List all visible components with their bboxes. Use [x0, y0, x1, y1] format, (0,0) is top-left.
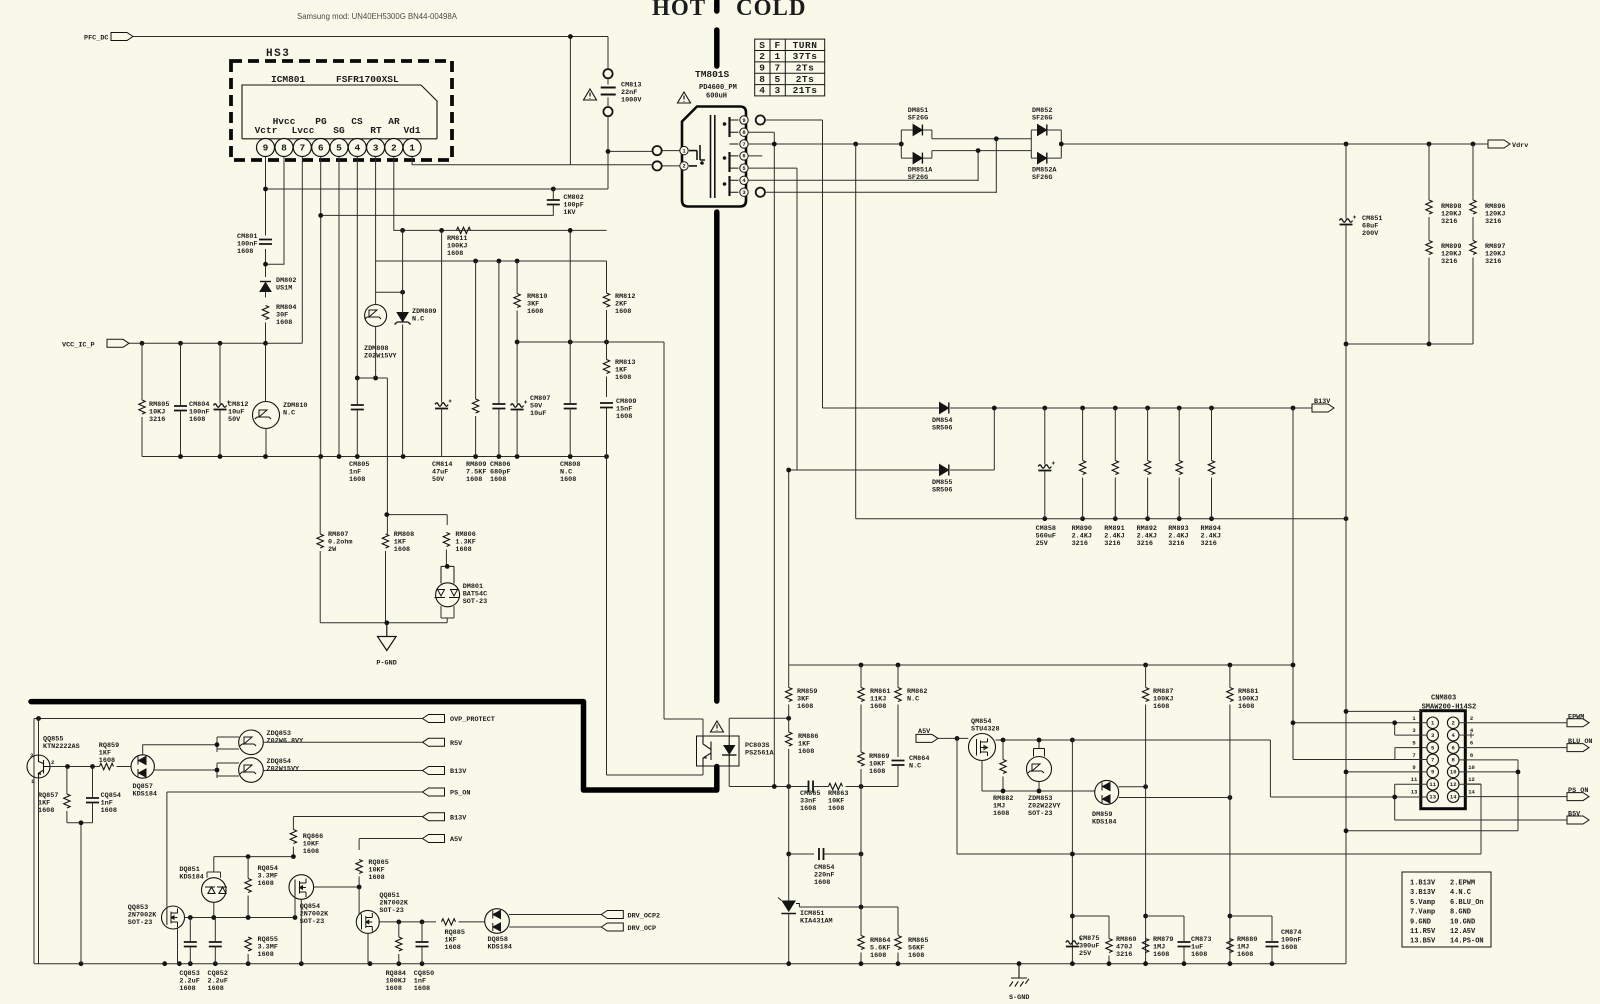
svg-text:A5V: A5V: [450, 836, 463, 844]
svg-text:2: 2: [1470, 715, 1473, 722]
junction: [246, 915, 251, 920]
diode DQ858 KDS184 (dual in circle): [485, 909, 510, 934]
svg-text:8: 8: [281, 143, 287, 154]
wire QQ851 source: [367, 934, 369, 964]
junction: [1228, 914, 1233, 919]
resistor RM860: [1106, 939, 1112, 953]
wire mid rail to optocoupler: [517, 342, 664, 719]
junction: [786, 784, 791, 789]
wire P-GND rail: [320, 622, 447, 624]
diode DM851: [913, 125, 922, 136]
svg-text:3: 3: [373, 143, 379, 154]
resistor RQ854: [245, 879, 251, 893]
wire ZDM853 leads: [1038, 740, 1040, 791]
wire CM802 to pin6 net: [321, 189, 554, 215]
diode DQ857 KDS184 (dual in circle): [131, 755, 154, 778]
capacitor CM813 terminals: [603, 69, 612, 78]
svg-text:P-GND: P-GND: [376, 660, 396, 668]
wire primary leads: [662, 151, 680, 166]
junction: [1070, 852, 1075, 857]
junction: [188, 961, 193, 966]
junction: [786, 468, 791, 473]
resistor RM812: [603, 293, 609, 307]
capacitor CM812 (polarized): [214, 401, 231, 410]
wire QQ854 source: [300, 899, 302, 963]
junction: [1001, 738, 1006, 743]
svg-text:PS_ON: PS_ON: [450, 790, 470, 798]
junction: [215, 768, 220, 773]
wire RM892 leads: [1147, 408, 1149, 519]
svg-text:21Ts: 21Ts: [793, 85, 818, 96]
svg-text:B13V: B13V: [450, 814, 467, 822]
svg-text:1.B13V: 1.B13V: [1410, 880, 1436, 888]
svg-text:4: 4: [759, 85, 765, 96]
wire DQ858 to DRV arrows: [509, 915, 601, 928]
svg-text:DRV_OCP: DRV_OCP: [628, 925, 657, 933]
junction: [1177, 406, 1182, 411]
node DRV_OCP flag: [601, 923, 623, 931]
resistor RM859: [786, 688, 792, 702]
svg-text:5: 5: [774, 74, 780, 85]
junction: [606, 149, 611, 154]
resistor RM805: [139, 400, 145, 414]
wire winding to RM859 rail: [788, 470, 790, 665]
wire ZDM810 leads: [265, 343, 268, 456]
resistor RQ855: [245, 937, 251, 951]
resistor RM880: [1227, 939, 1233, 953]
wire CM813 leads: [608, 78, 653, 189]
junction: [1080, 516, 1085, 521]
junction: [1209, 406, 1214, 411]
wire RQ857 leads: [66, 767, 68, 823]
resistor RM808: [382, 534, 388, 548]
op-amp / optocoupler PC803S: [697, 736, 740, 766]
svg-text:12: 12: [1468, 776, 1475, 783]
wire left border: [33, 719, 35, 964]
wire GND column down to connector area: [1345, 344, 1347, 964]
junction: [896, 961, 901, 966]
wire thick ground bus (bottom-left): [31, 702, 717, 790]
optocoupler diode side: [723, 745, 736, 755]
resistor RQ885 (horizontal): [442, 919, 456, 925]
svg-text:2Ts: 2Ts: [796, 74, 815, 85]
transformer TM801S body: [682, 107, 746, 207]
IC ICM801 pin 5: [330, 139, 348, 157]
connector CNM803 pin 4: [1447, 729, 1459, 741]
junction: [355, 376, 360, 381]
svg-text:EPWM: EPWM: [1568, 713, 1584, 721]
resistor RM809: [472, 399, 478, 413]
IC ICM801 pin 6: [312, 139, 330, 157]
resistor RM806: [443, 533, 449, 547]
wire RM859 leads: [788, 665, 790, 718]
wire RM894 leads: [1211, 408, 1213, 519]
svg-text:14.PS-ON: 14.PS-ON: [1450, 938, 1484, 946]
diode DM859 KDS184 (dual in circle): [1095, 780, 1119, 804]
junction: [1070, 738, 1075, 743]
resistor RM890: [1079, 461, 1085, 475]
resistor RM891: [1112, 461, 1118, 475]
junction: [263, 454, 268, 459]
wire RM886 leads: [788, 718, 790, 786]
svg-text:10: 10: [1468, 764, 1475, 771]
wire CM805 leads: [356, 378, 358, 457]
wire RM862 leads: [897, 665, 899, 757]
wire CM874 leads: [1271, 916, 1273, 964]
wire CQ852 leads: [214, 918, 216, 964]
connector CNM803 pin 12: [1447, 778, 1459, 790]
capacitor CM805: [351, 405, 364, 410]
transformer core lines: [711, 115, 715, 198]
resistor RM865: [895, 936, 901, 950]
junction: [1182, 961, 1187, 966]
junction: [859, 905, 864, 910]
svg-text:CNM803: CNM803: [1431, 695, 1456, 703]
junction: [859, 852, 864, 857]
svg-text:14: 14: [1450, 793, 1457, 800]
svg-text:6: 6: [318, 143, 324, 154]
junction: [473, 454, 478, 459]
wire CM875/RM860 tie: [1072, 915, 1109, 917]
junction: [162, 961, 167, 966]
svg-text:6: 6: [1470, 740, 1473, 747]
wire CM851 leads: [1345, 144, 1347, 344]
junction: [211, 915, 216, 920]
junction: [355, 454, 360, 459]
wire pins11/13 B5V and B5V flag: [1395, 784, 1567, 820]
transformer TM801S pin 2: [680, 162, 688, 170]
wire pin12 stub / pin14 PS_ON: [1459, 784, 1567, 796]
junction: [1392, 795, 1397, 800]
wire opto cathode to RM886 node: [729, 766, 789, 787]
node VCC_IC_P flag: [107, 339, 129, 347]
svg-text:2.EPWM: 2.EPWM: [1450, 880, 1475, 888]
wire CM808 leads: [569, 230, 571, 456]
capacitor CM858 (polarized): [1038, 462, 1055, 471]
junction: [786, 716, 791, 721]
svg-text:600uH: 600uH: [706, 93, 727, 101]
junction: [178, 454, 183, 459]
junction: [1143, 663, 1148, 668]
wire RM806 to DM801: [445, 550, 447, 567]
capacitor CM813: [601, 88, 616, 95]
table legend pin functions: [1402, 872, 1491, 947]
wire PS_ON net: [167, 792, 423, 910]
wire DQ851 top bracket: [207, 857, 221, 878]
junction: [1001, 789, 1006, 794]
connector CNM803 pin 6: [1447, 742, 1459, 754]
resistor RM887: [1142, 688, 1148, 702]
IC ICM801 pin 1: [403, 139, 421, 157]
svg-text:9: 9: [1412, 764, 1415, 771]
transistor ZDQ854 (zener in circle): [239, 758, 264, 783]
wire pin9 down / CM801 column: [265, 157, 267, 278]
svg-text:6.BLU_On: 6.BLU_On: [1450, 899, 1484, 907]
wire down to CM854: [789, 787, 814, 855]
wire RM808 leads: [386, 506, 388, 623]
junction: [551, 187, 556, 192]
junction: [992, 406, 997, 411]
svg-text:14: 14: [1468, 789, 1475, 796]
wire RM805 leads: [141, 343, 143, 456]
wire VCC_IC_P rail: [129, 342, 302, 344]
transformer terminal circles: [653, 146, 662, 155]
svg-text:HS3: HS3: [266, 48, 290, 60]
wire pin6 PG down to ground rail: [320, 157, 322, 457]
junction: [1113, 516, 1118, 521]
wire OVP_PROTECT net: [34, 718, 423, 720]
connector CNM803 pin 3: [1427, 729, 1439, 741]
wire QQ855 collector/emitter: [38, 719, 40, 964]
transistor ZDM853 (zener in circle): [1027, 757, 1052, 782]
IC ICM801 pin 9: [257, 139, 275, 157]
wire CQ850 leads: [421, 922, 423, 964]
junction: [79, 820, 84, 825]
transistor ZDM810 (zener in circle): [253, 402, 280, 429]
junction: [401, 454, 406, 459]
capacitor CQ852: [209, 942, 222, 947]
junction: [497, 454, 502, 459]
junction: [1113, 406, 1118, 411]
junction: [1392, 720, 1397, 725]
wire ZDQ854 to B13V: [263, 770, 422, 772]
junction: [853, 142, 858, 147]
resistor RM879: [1142, 939, 1148, 953]
wire QQ855 base: [50, 766, 100, 768]
junction: [772, 142, 777, 147]
wire RM881 column: [1229, 665, 1231, 964]
wire RQ857/CQ854 to ground: [67, 823, 93, 964]
svg-text:ICM801: ICM801: [271, 74, 306, 85]
junction: [1344, 342, 1349, 347]
svg-text:AR: AR: [388, 116, 400, 127]
junction: [1042, 406, 1047, 411]
IC U-ICM801 dashed enclosure HS3: [231, 61, 452, 160]
wire CM804 leads: [180, 343, 182, 456]
svg-text:B13V: B13V: [1314, 398, 1331, 406]
resistor RM898: [1426, 200, 1432, 214]
svg-text:3: 3: [774, 85, 780, 96]
svg-text:DRV_OCP2: DRV_OCP2: [628, 913, 661, 921]
warning triangle at TM801S: [678, 92, 691, 103]
svg-text:7: 7: [742, 141, 745, 148]
table transformer turns: [755, 39, 825, 96]
junction: [1270, 961, 1275, 966]
svg-text:HOT: HOT: [652, 0, 706, 20]
wire CM858 leads: [1044, 408, 1046, 519]
junction: [299, 961, 304, 966]
resistor RM886: [786, 732, 792, 746]
IC ICM801 pin 3: [367, 139, 385, 157]
wire A5V to RQ865: [359, 839, 422, 851]
wire secondary top rail (B5V): [789, 664, 1293, 666]
junction: [246, 961, 251, 966]
wire CM806 leads: [498, 261, 500, 457]
svg-text:1: 1: [774, 51, 780, 62]
diode DM802: [260, 282, 271, 292]
wire RM807 leads: [319, 457, 321, 623]
svg-text:F: F: [774, 40, 780, 51]
resistor RM863 (horizontal): [829, 783, 843, 789]
svg-text:8.GND: 8.GND: [1450, 909, 1471, 917]
junction: [263, 341, 268, 346]
connector CNM803 body: [1421, 711, 1466, 809]
svg-text:SG: SG: [333, 125, 345, 136]
wire CS node to RM806: [387, 515, 447, 525]
junction: [1143, 961, 1148, 966]
svg-text:PS_ON: PS_ON: [1568, 787, 1588, 795]
wire RM890 leads: [1082, 408, 1084, 519]
transistor QQ853 2N7002K (MOSFET): [162, 906, 185, 929]
wire DQ851 bottom: [213, 902, 215, 917]
capacitor CM807 (polarized): [511, 401, 528, 410]
transistor ICM851 KIA431AM (shunt reg): [781, 901, 796, 913]
svg-text:S: S: [759, 40, 765, 51]
wire CM814 leads: [441, 230, 443, 456]
wire QM854 source node: [982, 790, 1095, 792]
resistor RM811 (horizontal): [457, 227, 471, 233]
svg-text:BLU_ON: BLU_ON: [1568, 738, 1592, 746]
wire pin2 AR to rail A: [394, 157, 403, 231]
svg-text:DM854SR506: DM854SR506: [932, 417, 952, 432]
resistor RM894: [1208, 461, 1214, 475]
junction: [420, 920, 425, 925]
wire RM898/RM899 leads: [1428, 144, 1430, 344]
transistor QM854 STU4328 (P-MOSFET): [969, 734, 996, 761]
wire CM812 leads: [219, 343, 221, 456]
wire DM801 bottom: [441, 606, 454, 623]
junction: [1145, 406, 1150, 411]
wire transformer pin8 down: [748, 132, 774, 786]
resistor RM896: [1470, 200, 1476, 214]
junction: [1209, 516, 1214, 521]
junction: [473, 259, 478, 264]
wire RM882 leads: [1002, 740, 1004, 791]
junction: [1471, 142, 1476, 147]
wire GND to pin9: [1346, 771, 1427, 773]
junction: [1070, 961, 1075, 966]
wire RM869 lower lead: [860, 769, 862, 787]
junction: [604, 454, 609, 459]
IC ICM801 pin 7: [293, 139, 311, 157]
svg-text:3.B13V: 3.B13V: [1410, 889, 1436, 897]
wire RQ866 lower lead: [292, 847, 294, 857]
junction: [263, 187, 268, 192]
wire ZDM809 leads: [402, 230, 404, 456]
svg-text:7: 7: [1431, 757, 1434, 764]
wire pin4 stub (N.C): [1459, 732, 1474, 738]
capacitor CM801: [259, 240, 272, 245]
spacer: [791, 1, 793, 471]
wire QQ851 gate: [359, 887, 361, 914]
node A5V flag: [423, 835, 445, 843]
resistor RM864: [858, 936, 864, 950]
wire transformer pin9 to DM854: [765, 120, 823, 408]
svg-text:5: 5: [336, 143, 342, 154]
IC ICM801 pin 2: [385, 139, 403, 157]
capacitor CM808: [564, 404, 577, 409]
svg-text:B5V: B5V: [1568, 811, 1581, 819]
wire snubber bottom rail: [1346, 343, 1473, 345]
svg-text:4: 4: [354, 143, 360, 154]
junction: [396, 961, 401, 966]
junction: [1107, 961, 1112, 966]
resistor RM881: [1227, 688, 1233, 702]
wire secondary ground rail: [34, 963, 1346, 965]
connector CNM803 pin 8: [1447, 754, 1459, 766]
svg-text:9.GND: 9.GND: [1410, 918, 1431, 926]
node EPWM flag: [1567, 719, 1589, 727]
junction: [1143, 784, 1148, 789]
ground S-GND: [1010, 964, 1029, 987]
wire A5V jog to B5V pins: [1072, 740, 1394, 797]
junction: [515, 259, 520, 264]
svg-text:9: 9: [1431, 769, 1434, 776]
node B13V flag: [1312, 404, 1334, 412]
junction: [213, 961, 218, 966]
transformer secondary windings: [728, 117, 730, 196]
transformer TM801S pin 8: [740, 128, 748, 136]
svg-text:4.N.C: 4.N.C: [1450, 889, 1471, 897]
junction: [568, 228, 573, 233]
svg-text:2: 2: [391, 143, 397, 154]
wire A5V to QM854: [938, 737, 968, 739]
junction: [420, 961, 425, 966]
svg-text:DM851SF26G: DM851SF26G: [908, 107, 928, 122]
diode DM855: [940, 465, 949, 476]
wire ZDQ853 to R5V: [263, 741, 422, 743]
svg-text:37Ts: 37Ts: [793, 51, 818, 62]
junction: [400, 290, 405, 295]
transformer TM801S pin 7: [740, 140, 748, 148]
wire RQ884 leads: [398, 922, 400, 964]
junction: [515, 340, 520, 345]
node BLU_ON flag: [1567, 744, 1589, 752]
connector CNM803 pin 11: [1427, 778, 1439, 790]
svg-text:2: 2: [682, 163, 685, 170]
capacitor CM802: [547, 200, 560, 205]
wire RQ885 to DQ858: [459, 921, 486, 923]
wire center tap to sec ground rail: [856, 144, 1346, 519]
resistor RM893: [1176, 461, 1182, 475]
svg-text:8: 8: [759, 74, 765, 85]
wire ZDQ853 bracket: [217, 737, 239, 752]
wire DQ857 top to ZDQ853: [143, 745, 217, 755]
capacitor CQ854: [86, 798, 99, 803]
svg-text:2Ts: 2Ts: [796, 63, 815, 74]
wire pin3 RT to rail B: [376, 157, 607, 294]
junction: [215, 742, 220, 747]
connector CNM803 pin 2: [1447, 717, 1459, 729]
wire ICM851 leads: [788, 854, 790, 964]
junction: [859, 961, 864, 966]
svg-text:11.R5V: 11.R5V: [1410, 928, 1436, 936]
transistor QQ854 2N7002K (MOSFET): [289, 875, 314, 900]
wire RQ859 to DQ857: [117, 766, 132, 768]
svg-text:PG: PG: [315, 116, 327, 127]
ground P-GND: [378, 623, 397, 651]
wire RQ865 lower lead: [358, 877, 360, 888]
wire RM865 lower lead: [897, 953, 899, 964]
diode DM851A: [913, 153, 922, 164]
capacitor CQ853: [184, 942, 197, 947]
junction: [1291, 720, 1296, 725]
svg-text:2: 2: [51, 759, 54, 766]
junction: [357, 885, 362, 890]
junction: [373, 376, 378, 381]
wire ICM851 ref to RM864/RM865: [799, 907, 898, 935]
node OVP_PROTECT flag: [423, 715, 445, 723]
